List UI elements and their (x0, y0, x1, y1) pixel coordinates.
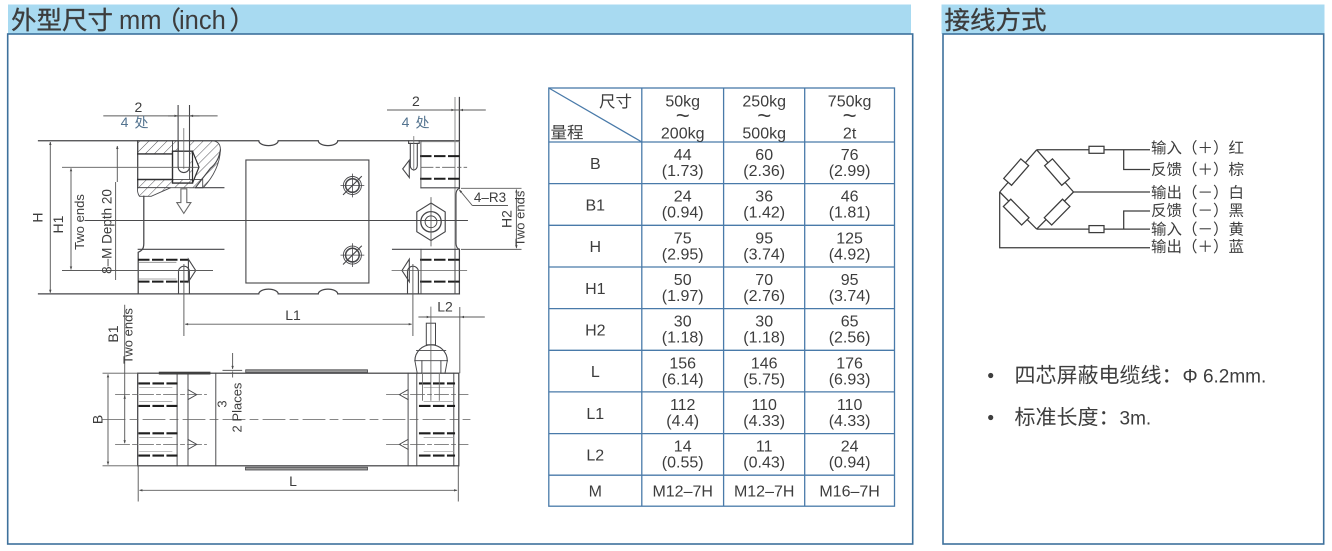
svg-text:(2.36): (2.36) (743, 163, 785, 180)
svg-text:2t: 2t (843, 126, 857, 143)
bottom hole centerline / H1 ext (62, 270, 213, 272)
svg-text:500kg: 500kg (742, 126, 786, 143)
bottom-right hole arc (408, 266, 419, 294)
svg-text:76: 76 (841, 147, 859, 164)
L extension lines (137, 466, 139, 502)
svg-text:24: 24 (841, 439, 859, 456)
bridge side top-right (1037, 150, 1074, 192)
table header 尺寸 (600, 93, 632, 108)
dim text 4处 right (416, 116, 429, 129)
svg-text:inch: inch (179, 7, 226, 35)
svg-text:70: 70 (755, 272, 773, 289)
gap bars (slots) (159, 372, 211, 375)
plan long centerline (103, 418, 470, 420)
bottom-right boss top line (393, 248, 460, 250)
svg-text:65: 65 (841, 314, 859, 331)
svg-text:11: 11 (756, 439, 773, 456)
bridge side bottom-right (1037, 192, 1074, 229)
bullet text standard length (1015, 407, 1105, 426)
L1 extension left (183, 264, 185, 336)
inline resistor top (1089, 146, 1104, 153)
cable (426, 323, 435, 345)
top-right drill cone < (403, 160, 410, 177)
wire label output+ blue (1152, 239, 1244, 254)
svg-text:(1.42): (1.42) (743, 205, 785, 222)
dimension H1 (70, 168, 72, 269)
wire label feedback+ brown (1152, 162, 1244, 177)
wire feedback- branch (1124, 211, 1150, 229)
side view top edge with EDM notches (39, 141, 460, 146)
gland hidden hole (423, 373, 440, 400)
svg-text:2 Places: 2 Places (230, 382, 245, 432)
svg-text:24: 24 (674, 189, 692, 206)
svg-text:44: 44 (674, 147, 692, 164)
plan view outline (138, 373, 459, 466)
svg-text:(0.55): (0.55) (662, 455, 704, 472)
bridge resistor R2 (1045, 159, 1070, 185)
bridge resistor R3 (1003, 199, 1029, 225)
svg-text:B: B (590, 156, 601, 173)
svg-text:110: 110 (837, 397, 863, 414)
dimensions table grid (549, 88, 895, 506)
svg-text:(4.4): (4.4) (666, 413, 699, 430)
plan thread thin lines (140, 388, 455, 452)
svg-text:2: 2 (135, 99, 143, 115)
cable centerline (430, 307, 432, 400)
top-right hole centerline (421, 166, 467, 168)
svg-text:75: 75 (674, 230, 692, 247)
wire label feedback- black (1152, 203, 1243, 218)
wire feedback+ branch (1124, 150, 1150, 170)
right panel border box (943, 34, 1324, 544)
svg-text:125: 125 (836, 230, 863, 247)
side view right edge (458, 98, 460, 294)
cable gland dome (415, 345, 447, 361)
svg-text:H1: H1 (50, 215, 66, 233)
top-right slot verticals + U (410, 143, 417, 170)
wire label input+ red (1152, 140, 1244, 155)
top-right hidden thread lines (421, 156, 459, 179)
svg-text:L: L (289, 473, 297, 489)
dimension B (107, 374, 109, 464)
svg-text:110: 110 (751, 397, 777, 414)
4-R3 leader (459, 190, 472, 206)
bottom-left hole arc (179, 266, 190, 294)
svg-text:30: 30 (755, 314, 773, 331)
svg-text:146: 146 (751, 355, 778, 372)
svg-text:46: 46 (841, 189, 859, 206)
svg-text:(1.97): (1.97) (662, 288, 704, 305)
svg-text:H2: H2 (585, 323, 606, 340)
L1 extension right (412, 264, 414, 336)
svg-text:H: H (30, 212, 46, 222)
svg-text:(0.94): (0.94) (829, 455, 871, 472)
top-left pin verticals (178, 106, 189, 167)
left header bar (8, 5, 911, 35)
svg-text:(3.74): (3.74) (743, 246, 785, 263)
svg-text:M12–7H: M12–7H (734, 484, 794, 501)
svg-text:176: 176 (836, 355, 863, 372)
bottom-left hidden thread lines (139, 260, 187, 282)
chamfer arrows (188, 390, 197, 400)
plan internal verticals (177, 373, 454, 466)
svg-text:Two ends: Two ends (72, 194, 87, 250)
svg-text:(4.33): (4.33) (829, 413, 871, 430)
svg-text:95: 95 (841, 272, 859, 289)
inline resistor bottom (1089, 226, 1104, 233)
table header 量程 (551, 125, 583, 140)
svg-text:156: 156 (669, 355, 696, 372)
svg-text:4: 4 (121, 114, 129, 130)
svg-text:(4.33): (4.33) (743, 413, 785, 430)
right header bar (942, 5, 1325, 35)
bullet text cable spec (1016, 365, 1168, 384)
left panel border box (8, 34, 913, 544)
hatch pattern areas (section cut) (137, 141, 220, 197)
dimension L1 (185, 323, 412, 325)
wire label output- white (1152, 185, 1242, 200)
svg-text:L: L (591, 364, 600, 381)
svg-text:14: 14 (674, 439, 692, 456)
svg-text:Two ends: Two ends (513, 190, 528, 246)
panel screw symbol (341, 174, 364, 197)
svg-text:mm: mm (119, 7, 161, 35)
svg-text:200kg: 200kg (661, 126, 705, 143)
svg-text:B1: B1 (105, 325, 121, 342)
plan thread hidden lines thick (140, 383, 455, 455)
svg-text:H: H (590, 239, 602, 256)
bridge resistor R1 (1004, 159, 1029, 185)
bottom-left drill cone > (188, 259, 195, 282)
svg-text:(0.94): (0.94) (662, 205, 704, 222)
svg-text:60: 60 (755, 147, 773, 164)
svg-text:4–R3: 4–R3 (474, 190, 506, 205)
wire input- bottom (1037, 228, 1150, 230)
header title 外型尺寸 mm（inch） (12, 8, 112, 32)
svg-text:(6.14): (6.14) (662, 371, 704, 388)
svg-text:112: 112 (670, 397, 696, 414)
bottom-right drill cone < (402, 259, 409, 282)
svg-text:B1: B1 (586, 197, 606, 214)
pin U bottom (178, 167, 189, 173)
section boundary curves (195, 150, 220, 188)
svg-text:(2.76): (2.76) (743, 288, 785, 305)
left drill cone (193, 151, 200, 183)
svg-text:2: 2 (412, 93, 420, 109)
svg-text:3m.: 3m. (1120, 409, 1152, 430)
svg-text:4: 4 (402, 114, 410, 130)
top-right block bottom (421, 187, 460, 189)
svg-text:(5.75): (5.75) (743, 371, 785, 388)
hex load button (417, 203, 445, 241)
panel screw symbol (341, 244, 364, 267)
side view left edge with relief (138, 141, 144, 294)
bottom boss centerlines (392, 270, 467, 272)
dimension L (139, 489, 457, 491)
svg-text:(2.95): (2.95) (662, 246, 704, 263)
svg-text:(0.43): (0.43) (743, 455, 785, 472)
svg-text:M12–7H: M12–7H (652, 484, 712, 501)
L2 extension right (459, 307, 461, 373)
dimension H2 (515, 190, 517, 249)
svg-text:(2.56): (2.56) (829, 330, 871, 347)
dimension 2 left (103, 115, 217, 117)
svg-text:(1.73): (1.73) (662, 163, 704, 180)
svg-text:(1.18): (1.18) (662, 330, 704, 347)
svg-text:95: 95 (755, 230, 773, 247)
right web R3 inset (456, 188, 459, 249)
bridge side top-left (1000, 150, 1037, 192)
svg-text:L2: L2 (437, 299, 453, 315)
dimension H (49, 142, 51, 293)
bottom-right hidden thread lines (421, 260, 459, 282)
svg-text:L1: L1 (586, 406, 604, 423)
bullet dot 1 (988, 373, 993, 378)
svg-text:M16–7H: M16–7H (819, 484, 879, 501)
dimension B1 (124, 305, 126, 444)
bottom-left boss top line (138, 248, 224, 250)
top-right notch step (409, 141, 420, 144)
band bottom line extension (196, 187, 224, 189)
top hole centerline / H1 ext (62, 166, 199, 168)
dimension 3 leader (223, 369, 243, 371)
dimension L2 (418, 316, 484, 318)
svg-text:50: 50 (674, 272, 692, 289)
svg-text:B: B (90, 415, 106, 424)
svg-text:Two ends: Two ends (121, 308, 136, 364)
svg-text:Φ 6.2mm.: Φ 6.2mm. (1183, 367, 1267, 388)
svg-text:M: M (589, 484, 602, 501)
svg-text:L2: L2 (586, 447, 604, 464)
svg-text:8–M Depth 20: 8–M Depth 20 (100, 189, 115, 274)
svg-text:36: 36 (755, 189, 773, 206)
svg-text:(6.93): (6.93) (829, 371, 871, 388)
wire output+ (1000, 192, 1150, 248)
table header diagonal (549, 88, 642, 142)
bullet dot 2 (988, 415, 993, 420)
8-M depth leader (116, 146, 118, 182)
dim text 4处 left (135, 116, 148, 129)
svg-text:(3.74): (3.74) (829, 288, 871, 305)
svg-text:H1: H1 (585, 281, 606, 298)
bridge resistor R4 (1044, 199, 1070, 225)
long horizontal centerline (85, 220, 468, 222)
load direction hollow arrow (177, 189, 191, 214)
plan hole centerlines (116, 395, 469, 445)
side view bottom edge with EDM notches (39, 289, 460, 294)
svg-text:30: 30 (674, 314, 692, 331)
dimension 2 right (387, 109, 486, 111)
svg-text:(2.99): (2.99) (829, 163, 871, 180)
wire output- (1074, 191, 1151, 193)
left slot (section) stepped outline (138, 151, 193, 183)
cable gland nut (415, 361, 447, 374)
header title 接线方式 (945, 8, 1045, 32)
svg-text:(1.18): (1.18) (743, 330, 785, 347)
svg-text:3: 3 (215, 400, 230, 407)
svg-text:(4.92): (4.92) (829, 246, 871, 263)
right 2mm cut line (454, 98, 456, 294)
central panel rectangle (246, 160, 369, 283)
svg-text:(1.81): (1.81) (829, 205, 871, 222)
pin center line (183, 129, 185, 169)
svg-text:L1: L1 (285, 307, 301, 323)
wire input+ top (1037, 149, 1150, 151)
bridge side bottom-left (1000, 192, 1037, 229)
wire label input- yellow (1152, 221, 1244, 236)
plan top edge extension left (103, 372, 138, 374)
H2 extension lines (461, 187, 522, 189)
